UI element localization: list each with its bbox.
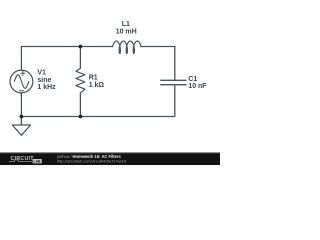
svg-text:10 nF: 10 nF [188,83,207,90]
voltage source V1 plus sign [21,71,25,75]
wire: L1 exit to C1 top (top rail right + right vertical) [141,47,175,80]
svg-text:R1: R1 [89,74,98,81]
node: junction R1 bottom [79,115,83,119]
svg-text:LAB: LAB [34,160,42,164]
watermark bar background [0,152,220,153]
wire: V1 top to L1 entry (left vertical + top rail) [21,47,112,71]
CircuitLab logo LAB box [33,159,42,163]
svg-text:1 kΩ: 1 kΩ [89,82,105,89]
svg-text:L1: L1 [122,21,130,28]
resistor R1 bottom stem [79,93,81,116]
wire: V1 bottom to ground node [20,93,22,117]
wire: bottom rail [21,116,174,118]
inductor L1 [113,41,141,53]
voltage source V1 sine waveform [14,75,28,89]
resistor R1 zigzag [76,68,85,93]
capacitor C1 bottom plate [161,84,186,86]
ground stem [20,117,22,126]
svg-text:V1: V1 [37,70,46,77]
svg-text:http://circuitlab.com/circuit/: http://circuitlab.com/circuit/4v5e72/hw1… [57,159,126,164]
resistor R1 top stem [79,47,81,69]
node: junction R1 top [79,45,83,49]
voltage source V1 minus sign [20,90,24,92]
voltage source V1 circle [10,70,33,93]
capacitor C1 top plate [161,79,186,81]
ground triangle [12,125,30,135]
node: junction ground/V1 bottom [20,115,24,119]
CircuitLab logo waveform underline [9,160,32,162]
svg-text:1 kHz: 1 kHz [37,84,56,91]
wire: C1 bottom to bottom rail [174,85,176,116]
svg-text:10 mH: 10 mH [116,28,137,35]
svg-text:C1: C1 [188,76,197,83]
svg-text:sine: sine [37,77,51,84]
svg-text:CIRCUIT: CIRCUIT [11,156,35,162]
